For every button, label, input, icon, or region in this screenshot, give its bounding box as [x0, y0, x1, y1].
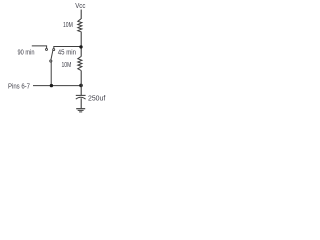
- wire R1 bottom through node A to R2 top: [80, 32, 82, 57]
- capacitor C1 bottom curved plate: [76, 97, 86, 99]
- wire R2 bottom through node B to capacitor: [80, 70, 82, 95]
- svg-text:Vcc: Vcc: [75, 1, 85, 10]
- svg-text:250uf: 250uf: [88, 94, 106, 103]
- svg-text:10M: 10M: [63, 20, 73, 29]
- svg-text:Pins 6-7: Pins 6-7: [8, 82, 30, 91]
- switch S1 pole contact: [50, 60, 52, 62]
- resistor R1: [78, 19, 82, 32]
- wire Pins 6-7 horizontal to node B: [33, 85, 81, 87]
- resistor R2: [78, 57, 82, 71]
- ground bar 3: [79, 111, 82, 113]
- switch left contact (90 min throw): [46, 48, 48, 50]
- node B junction dot: [79, 84, 83, 88]
- wire Vcc to R1 top: [80, 10, 82, 20]
- ground bar 1: [76, 108, 85, 110]
- node A junction dot: [79, 45, 82, 48]
- svg-text:45 min: 45 min: [58, 48, 76, 57]
- svg-text:90 min: 90 min: [18, 48, 35, 57]
- switch S1 blade: [51, 50, 53, 60]
- wire 45 min branch: node A left to switch right contact stub: [54, 47, 81, 49]
- wire 90 min stub: label to switch left contact: [32, 46, 47, 49]
- svg-text:10M: 10M: [62, 60, 72, 69]
- junction dot pole tap on pins wire: [50, 84, 53, 87]
- capacitor C1 top plate: [76, 94, 86, 96]
- switch right contact (45 min throw): [53, 49, 55, 51]
- wire switch pole down to pins wire: [50, 62, 52, 86]
- wire capacitor to ground: [80, 98, 82, 108]
- ground bar 2: [78, 109, 84, 111]
